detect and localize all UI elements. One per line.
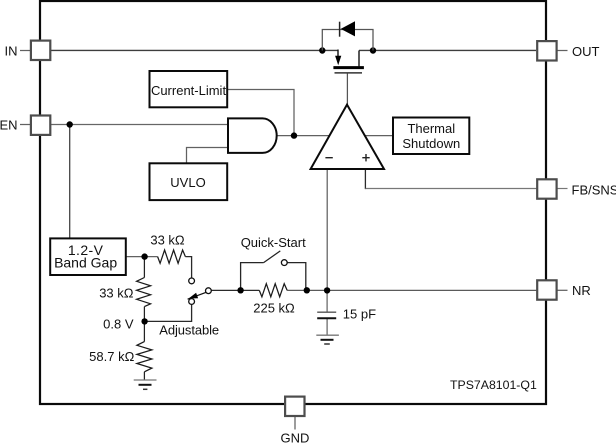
svg-text:NR: NR: [572, 283, 591, 298]
svg-text:FB/SNS: FB/SNS: [572, 183, 616, 198]
svg-text:UVLO: UVLO: [170, 175, 205, 190]
svg-text:15 pF: 15 pF: [343, 307, 376, 322]
svg-text:225 kΩ: 225 kΩ: [253, 301, 295, 316]
svg-text:OUT: OUT: [572, 44, 600, 59]
svg-text:33 kΩ: 33 kΩ: [99, 286, 134, 301]
svg-text:TPS7A8101-Q1: TPS7A8101-Q1: [450, 378, 537, 392]
svg-text:Current-Limit: Current-Limit: [151, 83, 227, 98]
svg-text:33 kΩ: 33 kΩ: [150, 233, 185, 248]
svg-text:Adjustable: Adjustable: [159, 322, 219, 337]
svg-text:Quick-Start: Quick-Start: [241, 235, 306, 250]
svg-text:EN: EN: [0, 117, 18, 132]
svg-text:58.7 kΩ: 58.7 kΩ: [89, 349, 134, 364]
svg-text:GND: GND: [281, 430, 310, 443]
svg-text:Band Gap: Band Gap: [54, 255, 117, 271]
svg-text:Shutdown: Shutdown: [402, 136, 460, 151]
svg-text:0.8 V: 0.8 V: [103, 316, 134, 331]
svg-text:Thermal: Thermal: [407, 121, 455, 136]
svg-text:IN: IN: [5, 43, 18, 58]
